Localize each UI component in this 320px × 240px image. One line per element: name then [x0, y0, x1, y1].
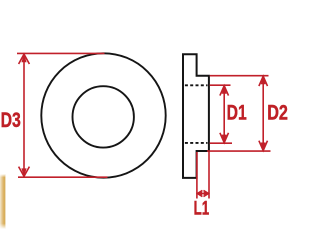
svg-text:L1: L1: [194, 198, 210, 220]
svg-text:D1: D1: [227, 102, 247, 125]
svg-text:D2: D2: [267, 101, 288, 124]
svg-text:D3: D3: [1, 109, 21, 132]
